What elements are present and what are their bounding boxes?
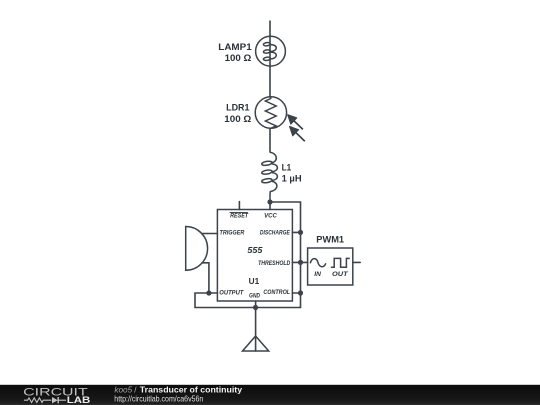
svg-text:VCC: VCC bbox=[264, 213, 277, 220]
wire OUTPUT loop bbox=[195, 293, 301, 308]
svg-text:U1: U1 bbox=[249, 277, 260, 286]
svg-text:THRESHOLD: THRESHOLD bbox=[258, 260, 291, 267]
node CONTROL bbox=[298, 290, 303, 295]
wire top feed bbox=[269, 21, 271, 37]
svg-text:Transducer of continuity: Transducer of continuity bbox=[140, 385, 243, 394]
wire LDR to L1 bbox=[269, 128, 271, 152]
label LAMP1 bbox=[218, 42, 252, 63]
node junction VCC bbox=[267, 199, 272, 204]
block PWM1 bbox=[301, 248, 361, 285]
svg-text:LAB: LAB bbox=[67, 395, 91, 405]
lamp LAMP1 bbox=[256, 36, 286, 66]
designator U1 bbox=[249, 277, 260, 286]
logo CIRCUIT LAB bbox=[23, 387, 91, 405]
op-amp U1 555 box bbox=[207, 202, 301, 308]
svg-text:100 Ω: 100 Ω bbox=[225, 53, 252, 63]
inductor L1 bbox=[261, 152, 277, 202]
node OUTPUT junction bbox=[206, 290, 211, 295]
pin label OUTPUT bbox=[219, 290, 244, 297]
svg-text:GND: GND bbox=[249, 292, 260, 299]
svg-text:L1: L1 bbox=[282, 163, 292, 173]
svg-text:LDR1: LDR1 bbox=[226, 102, 249, 112]
svg-text:TRIGGER: TRIGGER bbox=[220, 230, 245, 237]
pin label DISCHARGE bbox=[260, 230, 290, 237]
svg-text:CONTROL: CONTROL bbox=[263, 289, 290, 296]
label PWM1 bbox=[316, 235, 344, 245]
pin label THRESHOLD bbox=[258, 260, 291, 267]
photoresistor LDR1 bbox=[255, 97, 305, 141]
pin label CONTROL bbox=[263, 289, 290, 296]
wire junction to right rail bbox=[270, 202, 301, 308]
footer text bbox=[114, 385, 242, 403]
svg-text:RESET: RESET bbox=[230, 212, 249, 219]
wire lamp to LDR bbox=[269, 67, 271, 97]
svg-text:PWM1: PWM1 bbox=[316, 235, 344, 245]
speaker SPK1 bbox=[186, 227, 209, 294]
pin label TRIGGER bbox=[220, 230, 245, 237]
part label 555 bbox=[247, 246, 263, 255]
node DISCHARGE bbox=[298, 230, 303, 235]
pin label GND bbox=[249, 292, 260, 299]
label LDR1 bbox=[224, 102, 251, 124]
svg-text:koo5: koo5 bbox=[114, 385, 132, 394]
svg-text:LAMP1: LAMP1 bbox=[218, 42, 252, 52]
svg-text:OUTPUT: OUTPUT bbox=[219, 290, 244, 297]
ground bbox=[243, 308, 269, 352]
pin label VCC bbox=[264, 213, 277, 220]
footer bar bbox=[0, 385, 540, 405]
svg-text:OUT: OUT bbox=[332, 271, 349, 278]
svg-text:http://circuitlab.com/ca6v56n: http://circuitlab.com/ca6v56n bbox=[114, 395, 203, 404]
svg-text:1 µH: 1 µH bbox=[282, 174, 302, 184]
pin label IN bbox=[314, 271, 321, 278]
node GND junction bbox=[253, 305, 258, 310]
pin label RESET bbox=[230, 212, 249, 219]
svg-text:DISCHARGE: DISCHARGE bbox=[260, 230, 290, 237]
pin label OUT bbox=[332, 271, 349, 278]
svg-text:IN: IN bbox=[314, 271, 321, 278]
node THRESHOLD bbox=[298, 260, 303, 265]
svg-text:555: 555 bbox=[247, 246, 263, 255]
label L1 bbox=[282, 163, 302, 184]
svg-text:100 Ω: 100 Ω bbox=[224, 114, 251, 124]
